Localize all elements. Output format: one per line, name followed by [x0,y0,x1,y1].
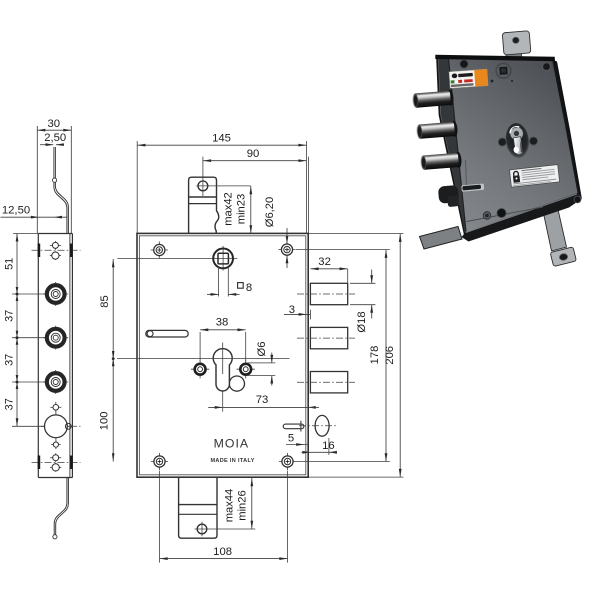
svg-text:2,50: 2,50 [44,132,66,144]
svg-text:min26: min26 [237,490,249,520]
svg-text:12,50: 12,50 [2,205,30,217]
svg-text:min23: min23 [236,194,248,224]
svg-text:5: 5 [288,432,294,444]
svg-text:37: 37 [4,398,16,410]
svg-text:51: 51 [4,258,16,270]
svg-text:MADE IN ITALY: MADE IN ITALY [210,458,254,464]
svg-text:145: 145 [212,133,231,145]
svg-text:max42: max42 [223,192,235,226]
svg-text:37: 37 [4,310,16,322]
svg-text:38: 38 [216,317,229,329]
svg-text:Ø6,20: Ø6,20 [264,197,276,227]
svg-text:32: 32 [318,256,331,268]
svg-text:90: 90 [247,148,260,160]
svg-text:8: 8 [246,282,252,294]
svg-text:85: 85 [99,295,111,307]
svg-text:Ø18: Ø18 [356,311,368,332]
svg-text:100: 100 [99,412,111,431]
svg-text:206: 206 [384,346,396,365]
svg-text:Ø6: Ø6 [256,342,268,357]
svg-text:37: 37 [4,354,16,366]
svg-text:16: 16 [322,440,335,452]
svg-text:178: 178 [369,346,381,365]
svg-text:30: 30 [48,118,61,130]
svg-text:73: 73 [256,394,269,406]
svg-text:max44: max44 [223,489,235,523]
svg-text:MOIA: MOIA [214,437,249,451]
svg-text:108: 108 [213,546,232,558]
